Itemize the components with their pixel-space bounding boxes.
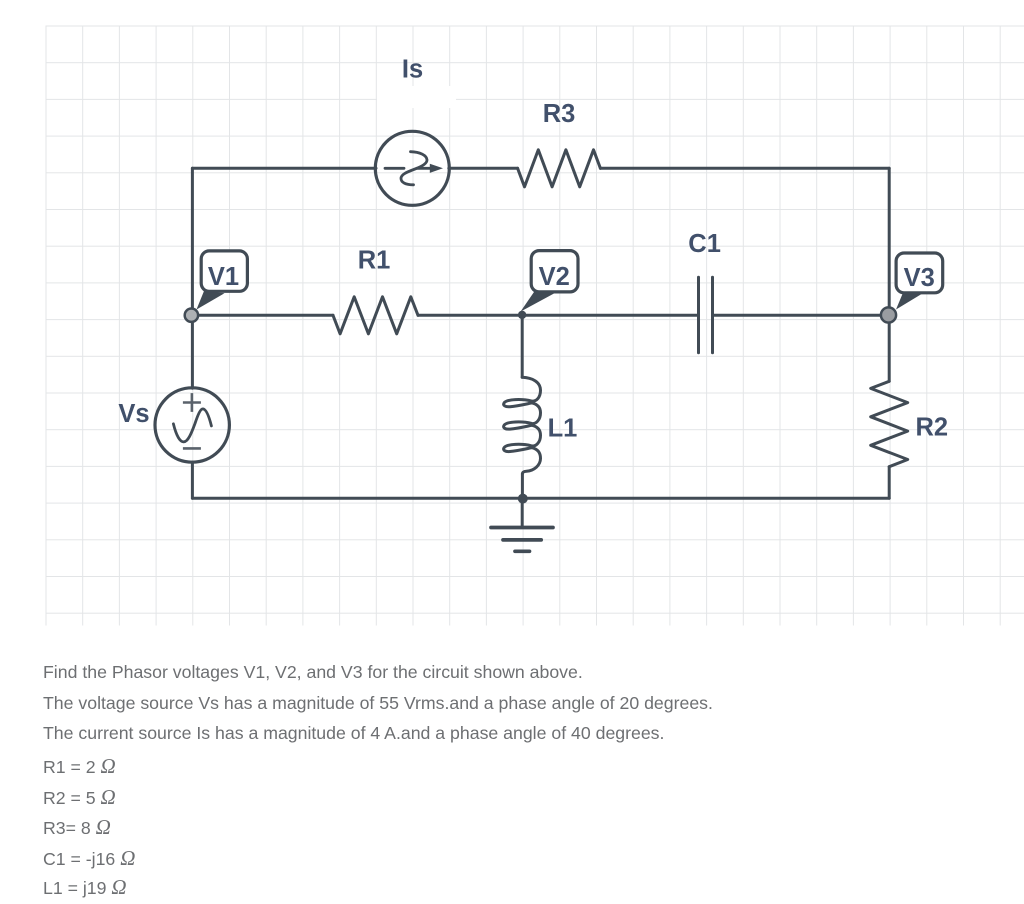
ground bar 2 <box>503 538 541 542</box>
node V2 junction dot <box>518 311 526 319</box>
ground bar 1 <box>491 526 553 530</box>
svg-text:Vs: Vs <box>118 400 149 428</box>
svg-text:V2: V2 <box>539 263 570 291</box>
grid background <box>46 26 1024 626</box>
current source Is arrowhead <box>430 164 443 173</box>
voltage source Vs circle <box>155 388 229 462</box>
wire: V2 down to L1 <box>521 315 524 377</box>
label V3 pointer <box>896 292 922 310</box>
wire: middle horizontal V1 to R1 <box>192 314 333 317</box>
svg-text:C1: C1 <box>688 230 721 258</box>
wire: right vertical top (corner down to V3 node) <box>888 168 891 315</box>
label V2 pointer <box>521 291 555 311</box>
ground stub <box>521 498 524 527</box>
svg-text:R2: R2 <box>915 414 948 442</box>
wire: right vertical R2 to bottom corner <box>888 467 891 499</box>
wire: top horizontal Is to R3 <box>449 167 518 170</box>
wire: top horizontal left segment to Is <box>192 167 376 170</box>
white patch under Is label <box>377 86 456 108</box>
label V3 box <box>896 253 943 293</box>
resistor R2 <box>871 381 908 466</box>
circuit schematic canvas <box>0 0 1024 640</box>
wire: top horizontal R3 to right corner <box>600 167 889 170</box>
voltage source Vs plus sign <box>183 393 201 412</box>
wire: middle horizontal V2 to C1 <box>522 314 697 317</box>
label V2 box <box>531 251 578 292</box>
voltage source Vs sine <box>173 409 211 442</box>
question text <box>43 657 1023 904</box>
capacitor C1 plate left <box>697 277 700 353</box>
svg-text:V3: V3 <box>904 264 935 292</box>
wire: top-left vertical (V1 node up to top wire) <box>191 168 194 315</box>
svg-text:R3: R3 <box>543 100 576 128</box>
wire: L1 to bottom <box>521 474 524 499</box>
resistor R1 <box>333 297 418 334</box>
wire: right vertical V3 node to R2 <box>888 315 891 381</box>
wire: bottom horizontal <box>192 497 889 500</box>
current source Is circle <box>375 131 449 205</box>
ground junction dot <box>518 494 528 504</box>
voltage source Vs minus sign <box>183 447 201 450</box>
ground bar 3 <box>515 549 530 553</box>
inductor L1 coil <box>504 377 541 474</box>
node V1 <box>185 309 198 322</box>
wire: middle horizontal R1 to V2 <box>418 314 522 317</box>
wire: left vertical above Vs <box>191 315 194 388</box>
svg-text:R1: R1 <box>358 246 391 274</box>
svg-text:L1: L1 <box>548 415 578 443</box>
capacitor C1 plate right <box>711 277 714 353</box>
label V1 box <box>201 251 247 291</box>
svg-text:Is: Is <box>402 55 423 83</box>
current source Is sine squiggle <box>401 152 427 185</box>
current source Is arrow line <box>385 167 430 170</box>
label V1 pointer <box>197 291 225 310</box>
node V3 <box>881 307 896 322</box>
resistor R3 <box>518 150 601 187</box>
wire: left vertical below Vs <box>191 462 194 498</box>
wire: middle horizontal C1 to V3 <box>714 314 889 317</box>
svg-text:V1: V1 <box>208 263 239 291</box>
